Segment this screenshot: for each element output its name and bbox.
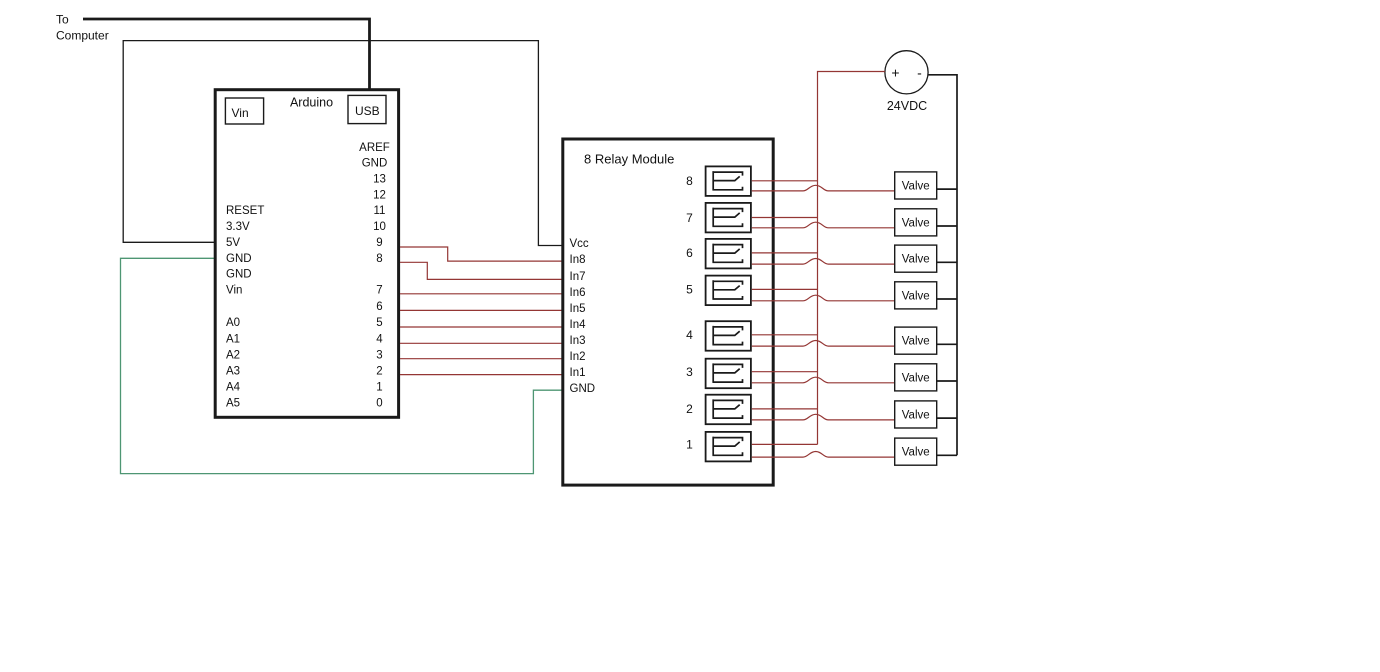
svg-text:6: 6: [686, 246, 693, 260]
svg-text:A5: A5: [226, 398, 240, 410]
wire valve V2 to -24V bus: [937, 225, 957, 227]
svg-text:2: 2: [686, 402, 693, 416]
svg-text:3: 3: [376, 350, 382, 362]
wire pin 9 to In8: [400, 247, 562, 261]
svg-text:1: 1: [686, 438, 693, 452]
svg-text:A3: A3: [226, 365, 240, 377]
svg-text:5V: 5V: [226, 237, 240, 249]
connector Vin: [225, 98, 263, 124]
svg-text:A2: A2: [226, 350, 240, 362]
wire pin 3 to In2: [400, 358, 562, 360]
svg-text:4: 4: [686, 328, 693, 342]
wire relay 5 contact to +24V bus: [752, 288, 818, 290]
svg-text:7: 7: [686, 211, 693, 225]
svg-text:6: 6: [376, 301, 382, 313]
wire relay 6 contact to +24V bus: [752, 252, 818, 254]
svg-text:10: 10: [373, 221, 386, 233]
wire pin 7 to In6: [400, 293, 562, 295]
svg-text:11: 11: [374, 205, 386, 217]
svg-text:USB: USB: [355, 104, 380, 118]
svg-text:Valve: Valve: [902, 409, 930, 421]
wire relay 7 contact to +24V bus: [752, 217, 818, 219]
svg-text:GND: GND: [226, 269, 252, 281]
wire -24V return bus (black): [928, 75, 957, 456]
svg-text:24VDC: 24VDC: [887, 99, 927, 113]
svg-text:In7: In7: [570, 271, 586, 283]
svg-text:Vin: Vin: [232, 106, 249, 120]
relay K7: [706, 203, 751, 233]
8 Relay Module board U2: [563, 139, 773, 485]
wire valve V4 to -24V bus: [937, 298, 957, 300]
valve V4: [895, 282, 937, 309]
relay K6: [706, 239, 751, 269]
relay K1: [706, 432, 751, 462]
svg-text:Computer: Computer: [56, 29, 109, 43]
wire pin 4 to In3: [400, 342, 562, 344]
svg-text:8: 8: [376, 253, 382, 265]
wire relay 2 common to valve (hop over bus): [752, 414, 895, 420]
relay K2: [706, 395, 751, 425]
relay K4: [706, 321, 751, 351]
svg-text:Valve: Valve: [902, 217, 930, 229]
svg-text:12: 12: [373, 189, 386, 201]
node To Computer label: [56, 13, 109, 43]
valve V3: [895, 245, 937, 272]
svg-text:A0: A0: [226, 317, 240, 329]
wire +24V bus (red): [818, 72, 885, 445]
svg-text:A1: A1: [226, 334, 240, 346]
svg-text:Vin: Vin: [226, 285, 242, 297]
svg-text:1: 1: [376, 382, 382, 394]
wire relay 1 common to valve (hop over bus): [752, 452, 895, 458]
svg-text:In6: In6: [570, 287, 586, 299]
svg-text:Valve: Valve: [902, 180, 930, 192]
wire valve V7 to -24V bus: [937, 417, 957, 419]
wire pin 8 to In7: [400, 262, 562, 279]
svg-text:AREF: AREF: [359, 142, 390, 154]
svg-text:Arduino: Arduino: [290, 96, 333, 110]
wire relay 8 contact to +24V bus: [752, 180, 818, 182]
wire 5V to Vcc: [123, 41, 561, 246]
wire pin 2 to In1: [400, 374, 562, 376]
valve V6: [895, 364, 937, 391]
valve V7: [895, 401, 937, 428]
wire relay 1 contact to +24V bus: [752, 443, 818, 445]
svg-text:GND: GND: [362, 157, 388, 169]
svg-text:Valve: Valve: [902, 254, 930, 266]
wire pin 6 to In5: [400, 309, 562, 311]
relay K5: [706, 276, 751, 306]
svg-text:Vcc: Vcc: [570, 238, 589, 250]
svg-text:4: 4: [376, 334, 383, 346]
svg-text:In5: In5: [570, 303, 586, 315]
svg-text:7: 7: [376, 285, 382, 297]
svg-text:3: 3: [686, 365, 693, 379]
svg-text:GND: GND: [570, 383, 596, 395]
wire GND (green) Arduino to relay module: [121, 258, 562, 473]
wire USB cable to computer: [83, 19, 370, 89]
svg-text:5: 5: [686, 283, 693, 297]
svg-text:Valve: Valve: [902, 372, 930, 384]
wire relay 3 contact to +24V bus: [752, 371, 818, 373]
svg-text:9: 9: [376, 237, 382, 249]
wire valve V6 to -24V bus: [937, 380, 957, 382]
svg-text:8: 8: [686, 174, 693, 188]
wire relay 7 common to valve (hop over bus): [752, 222, 895, 228]
svg-text:3.3V: 3.3V: [226, 221, 250, 233]
svg-text:To: To: [56, 13, 69, 27]
svg-text:In2: In2: [570, 351, 586, 363]
svg-text:In8: In8: [570, 254, 586, 266]
svg-text:In4: In4: [570, 319, 587, 331]
svg-text:Valve: Valve: [902, 290, 930, 302]
svg-text:0: 0: [376, 398, 382, 410]
wire pin 5 to In4: [400, 326, 562, 328]
svg-text:In3: In3: [570, 335, 586, 347]
valve V1: [895, 172, 937, 199]
wire relay 4 contact to +24V bus: [752, 334, 818, 336]
power supply PS1 24VDC: [885, 51, 928, 94]
connector USB: [348, 95, 386, 123]
wire relay 8 common to valve (hop over bus): [752, 185, 895, 191]
svg-text:A4: A4: [226, 382, 241, 394]
svg-text:+: +: [891, 65, 899, 81]
wire valve V3 to -24V bus: [937, 261, 957, 263]
wire valve V5 to -24V bus: [937, 343, 957, 345]
wire relay 4 common to valve (hop over bus): [752, 341, 895, 347]
Arduino board U1: [215, 90, 398, 418]
wire relay 6 common to valve (hop over bus): [752, 259, 895, 265]
svg-text:8 Relay Module: 8 Relay Module: [584, 152, 674, 167]
svg-text:13: 13: [373, 174, 386, 186]
relay K3: [706, 359, 751, 389]
valve V5: [895, 327, 937, 354]
svg-text:-: -: [917, 65, 922, 81]
valve V8: [895, 438, 937, 465]
wire valve V8 to -24V bus: [937, 454, 957, 456]
svg-text:Valve: Valve: [902, 336, 930, 348]
wire relay 3 common to valve (hop over bus): [752, 377, 895, 383]
svg-text:In1: In1: [570, 367, 586, 379]
svg-text:Valve: Valve: [902, 447, 930, 459]
svg-text:GND: GND: [226, 253, 252, 265]
svg-text:2: 2: [376, 365, 382, 377]
wire relay 5 common to valve (hop over bus): [752, 295, 895, 301]
svg-text:RESET: RESET: [226, 205, 264, 217]
relay K8: [706, 166, 751, 196]
wire valve V1 to -24V bus: [937, 188, 957, 190]
valve V2: [895, 209, 937, 236]
svg-text:5: 5: [376, 317, 382, 329]
wire relay 2 contact to +24V bus: [752, 408, 818, 410]
